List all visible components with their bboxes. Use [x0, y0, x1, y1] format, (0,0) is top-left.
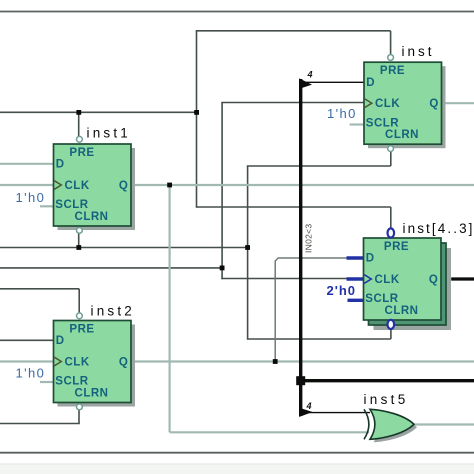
wire clock net to inst CLK	[221, 102, 364, 104]
svg-text:1'h0: 1'h0	[16, 365, 46, 380]
junction Q1 branch	[167, 183, 172, 188]
wire Q1 output to right edge	[131, 184, 474, 186]
svg-text:D: D	[56, 335, 65, 347]
wire CLRN net horizontal from left edge	[0, 247, 248, 249]
wire clock net horizontal from left edge	[0, 267, 222, 269]
wire Q2 output to right edge	[131, 360, 474, 362]
wire CLRN net stub from inst1 CLRN bubble	[78, 233, 80, 248]
wire clock net vertical riser	[221, 103, 223, 280]
svg-text:CLRN: CLRN	[385, 305, 419, 317]
svg-text:CLK: CLK	[65, 180, 90, 192]
svg-text:Q: Q	[429, 98, 438, 110]
bus IN02 bottom arrow	[299, 408, 313, 417]
wire PRE net vertical riser	[196, 31, 198, 208]
svg-text:4: 4	[306, 401, 312, 411]
svg-text:SCLR: SCLR	[365, 293, 399, 305]
wire inst2 CLRN stub down	[78, 410, 80, 424]
junction PRE net at riser	[194, 110, 199, 115]
bus IN02 thick branch to right edge	[301, 379, 474, 382]
svg-text:D: D	[366, 253, 375, 265]
svg-text:inst1: inst1	[87, 126, 132, 141]
svg-text:inst: inst	[402, 44, 435, 59]
svg-text:Q: Q	[119, 180, 128, 192]
svg-text:SCLR: SCLR	[366, 117, 400, 129]
wire CLRN net lower horizontal	[247, 338, 391, 340]
wire PRE net stub to inst PRE bubble	[390, 31, 392, 55]
wire inst SCLR stub	[350, 123, 364, 125]
svg-text:CLRN: CLRN	[385, 129, 419, 141]
junction bus branch	[296, 376, 305, 385]
flip-flop inst1	[54, 136, 136, 233]
svg-text:PRE: PRE	[380, 65, 405, 77]
svg-text:1'h0: 1'h0	[327, 106, 357, 121]
svg-text:D: D	[366, 77, 375, 89]
wire inst2 D input	[0, 339, 54, 341]
svg-text:PRE: PRE	[384, 241, 409, 253]
wire inst5 output to right edge	[414, 423, 474, 425]
svg-text:inst5: inst5	[364, 392, 409, 407]
svg-text:IN02<3: IN02<3	[304, 224, 314, 253]
svg-text:Q: Q	[429, 274, 438, 286]
wire PRE net horizontal from left edge	[0, 111, 197, 113]
svg-text:PRE: PRE	[69, 147, 94, 159]
flip-flop inst[4..3] (2-bit stacked)	[364, 228, 452, 330]
junction Q2 riser	[273, 359, 278, 364]
svg-text:CLK: CLK	[375, 274, 400, 286]
svg-text:CLK: CLK	[65, 356, 90, 368]
wire clock net to inst43 CLK	[221, 278, 352, 280]
wire Q1 branch riser down	[169, 185, 171, 432]
wire CLRN net stub from inst CLRN bubble	[390, 151, 392, 166]
bus IN02 top arrow	[299, 78, 312, 88]
wire inst2 CLK input	[0, 360, 54, 362]
svg-text:SCLR: SCLR	[55, 376, 89, 388]
wire Q2 riser up to inst43 D	[275, 258, 352, 362]
svg-text:CLRN: CLRN	[75, 387, 109, 399]
wire inst1 CLK input	[0, 184, 54, 186]
wire inst43 D stub (bus)	[347, 256, 364, 259]
bus IN02 rip to inst D	[303, 81, 364, 83]
svg-text:1'h0: 1'h0	[16, 190, 46, 205]
svg-text:Q: Q	[119, 356, 128, 368]
junction CLRN net at inst1 stub	[76, 245, 81, 250]
svg-text:D: D	[56, 159, 65, 171]
svg-text:CLRN: CLRN	[75, 211, 109, 223]
wire PRE net top horizontal	[196, 30, 391, 32]
wire inst43 Q output to right edge (bus)	[441, 277, 453, 280]
wire PRE net stub to inst1 PRE bubble	[78, 112, 80, 137]
frame rail bottom faint	[0, 463, 474, 465]
wire CLRN net vertical riser	[247, 166, 249, 339]
wire CLRN net stub from inst43 CLRN bubble	[390, 328, 392, 339]
bus IN02 rip to inst5 input	[303, 412, 370, 414]
junction CLRN net at riser	[245, 245, 250, 250]
flip-flop inst2	[54, 313, 136, 410]
flip-flop inst	[364, 55, 446, 152]
wire CLRN net upper horizontal	[247, 165, 391, 167]
frame rail top	[0, 11, 474, 13]
wire PRE net stub to inst43 PRE bubble	[390, 207, 392, 229]
wire inst1 D input	[0, 163, 54, 165]
svg-text:inst2: inst2	[91, 304, 136, 319]
wire inst43 CLK stub (bus)	[347, 277, 364, 280]
wire inst43 SCLR stub (bus)	[348, 299, 364, 302]
bus IN02 vertical	[299, 79, 302, 416]
wire inst2 PRE stub down to bubble	[78, 289, 80, 313]
frame rail bottom	[0, 452, 474, 454]
svg-text:SCLR: SCLR	[55, 199, 89, 211]
wire PRE net lower horizontal	[197, 206, 391, 208]
wire inst Q output to right edge	[442, 102, 474, 104]
svg-text:CLK: CLK	[375, 98, 400, 110]
junction clock net	[220, 266, 225, 271]
wire inst2 PRE input from left edge	[0, 288, 79, 290]
wire inst2 SCLR stub	[40, 381, 54, 383]
svg-text:4: 4	[307, 70, 313, 80]
wire Q1 branch to xor input	[170, 431, 369, 433]
xor gate inst5	[364, 409, 417, 442]
junction PRE net at inst1 stub	[76, 110, 81, 115]
wire inst2 CLRN horizontal to left edge	[0, 423, 80, 425]
svg-text:2'h0: 2'h0	[327, 283, 357, 298]
wire inst1 SCLR stub	[40, 205, 54, 207]
svg-text:inst[4..3]: inst[4..3]	[403, 221, 474, 236]
svg-text:PRE: PRE	[69, 323, 94, 335]
